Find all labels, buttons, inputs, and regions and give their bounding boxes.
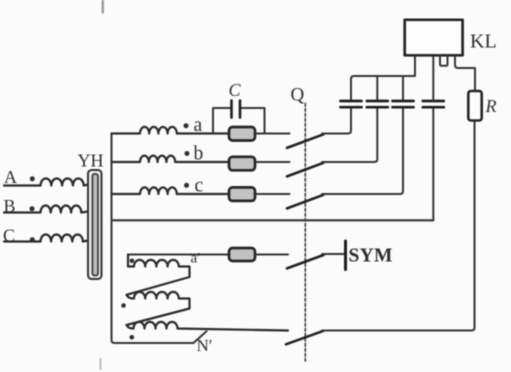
wire neutral line up to cap4	[432, 109, 434, 221]
capacitor 2 plates	[367, 101, 388, 107]
primary winding phase A	[4, 179, 88, 186]
resistor box open-delta	[229, 248, 255, 261]
polarity dot delta 3	[130, 335, 135, 340]
SYM terminal bar	[344, 241, 347, 270]
polarity dot a	[184, 123, 189, 128]
resistor box phase b	[229, 157, 255, 171]
svg-text:C: C	[229, 80, 242, 100]
primary winding phase B	[4, 205, 88, 212]
switch blade line b	[287, 163, 324, 177]
capacitor 4 plates	[423, 101, 444, 107]
open-delta winding a' line	[128, 254, 229, 256]
polarity dot phase A	[30, 176, 35, 181]
switch blade line c	[287, 195, 324, 209]
capacitor 3 plates	[393, 101, 414, 107]
capacitor bank top bus	[351, 55, 415, 100]
relay KL box	[405, 20, 463, 56]
svg-text:A: A	[4, 167, 17, 187]
open-delta coil 1	[127, 255, 190, 295]
wire c to switch	[255, 193, 290, 195]
polarity dot phase C	[30, 237, 35, 242]
polarity dot delta 1	[130, 259, 135, 264]
capacitor C loop	[213, 108, 265, 134]
wire cropped top tick	[102, 0, 104, 13]
wire KL to cap4	[432, 55, 434, 100]
switch blade line a	[287, 134, 324, 148]
svg-text:N′: N′	[197, 336, 213, 355]
open-delta coil 3	[127, 322, 289, 331]
neutral 4th line	[112, 219, 434, 221]
disconnector Q dashed line	[304, 104, 306, 362]
wire delta line to switch	[255, 254, 288, 256]
wire KL to R	[455, 55, 475, 91]
resistor R	[468, 91, 481, 121]
transformer core	[88, 170, 102, 279]
open-delta coil 2	[127, 292, 190, 325]
resistor box phase a	[229, 127, 255, 141]
svg-text:a: a	[194, 115, 203, 136]
svg-text:KL: KL	[470, 31, 497, 53]
svg-text:Q: Q	[291, 85, 305, 106]
svg-text:R: R	[485, 96, 497, 116]
secondary winding b	[112, 156, 230, 162]
polarity dot c	[184, 183, 189, 188]
secondary winding a	[112, 127, 230, 134]
wire b to switch	[255, 161, 290, 163]
svg-text:a′: a′	[191, 251, 201, 267]
wire a after switch to cap1	[322, 109, 351, 134]
switch blade delta line	[287, 255, 324, 268]
polarity dot delta 2	[121, 303, 126, 308]
capacitor 1 plates	[341, 101, 362, 107]
wire a to switch	[255, 133, 290, 135]
svg-text:SYM: SYM	[349, 246, 393, 267]
wire delta line after switch to SYM	[322, 253, 344, 255]
bottom faint tick	[100, 359, 102, 370]
svg-text:b: b	[194, 144, 204, 165]
secondary winding c	[112, 187, 230, 194]
secondary neutral bus	[112, 134, 207, 344]
svg-text:c: c	[195, 176, 204, 197]
polarity dot b	[185, 151, 190, 156]
KL pin notch	[440, 55, 448, 66]
svg-text:YH: YH	[78, 151, 104, 171]
polarity dot phase B	[30, 206, 35, 211]
switch blade bottom line	[286, 331, 324, 345]
wire c after switch to cap3	[322, 109, 403, 195]
primary winding phase C	[4, 235, 88, 242]
wire bottom line after switch to R	[322, 121, 475, 331]
wire b after switch to cap2	[322, 109, 377, 163]
resistor box phase c	[229, 187, 255, 201]
